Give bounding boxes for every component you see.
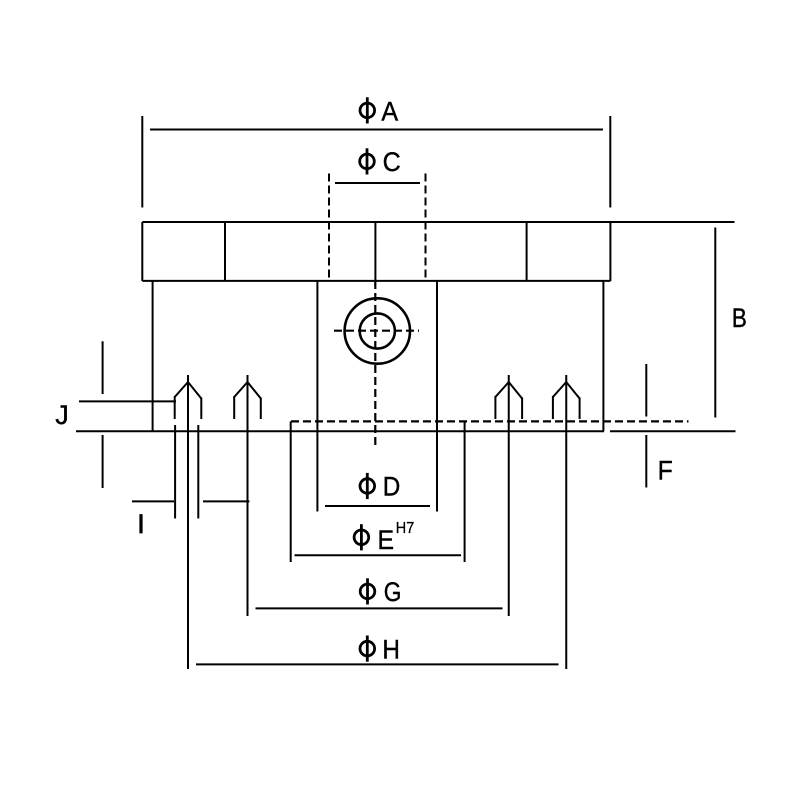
extension line phi-E left — [290, 421, 292, 562]
pin symbol 2 left barb — [233, 396, 235, 419]
center hole inner circle — [360, 313, 395, 348]
dimension J vertical lower segment — [102, 435, 104, 488]
pin symbol 4 right barb — [579, 398, 581, 420]
hidden line phi-C left — [328, 174, 330, 281]
pin symbol 2 right barb — [260, 398, 262, 420]
svg-text:G: G — [384, 577, 402, 607]
pin symbol 4 chevron — [553, 382, 580, 399]
center hole outer circle — [345, 298, 410, 363]
dimension line phi-A — [150, 129, 603, 131]
dimension J vertical upper segment — [102, 341, 104, 394]
hidden pin bottom line dashed — [291, 420, 689, 422]
pin symbol 1 left barb — [174, 396, 176, 419]
dimension F vertical lower segment — [645, 435, 647, 488]
pin symbol 4 left barb — [552, 396, 554, 419]
body bottom line (with J extension to left) — [76, 430, 604, 432]
flange segment line left — [224, 222, 226, 281]
extension line phi-D right — [436, 281, 438, 512]
svg-text:C: C — [383, 146, 401, 177]
flange right edge — [609, 222, 611, 281]
extension line phi-E right — [464, 421, 466, 562]
vertical centerline dashed — [374, 281, 376, 449]
dimension label phi-G — [360, 577, 401, 607]
dimension J top line — [79, 400, 176, 402]
pin symbol 3 left barb — [494, 396, 496, 419]
dimension line phi-H — [196, 663, 559, 665]
dimension line B — [714, 228, 716, 418]
extension line phi-D left — [316, 281, 318, 512]
hidden line phi-C right — [425, 174, 427, 281]
pin symbol 4 centerline (extension for phi-H) — [565, 375, 567, 669]
pin symbol 3 right barb — [521, 398, 523, 420]
pin symbol 3 centerline (extension for phi-G) — [508, 375, 510, 616]
body left edge — [152, 281, 154, 431]
hole crosshair horizontal centerline — [334, 330, 419, 332]
svg-text:I: I — [137, 509, 145, 539]
pin symbol 3 chevron — [495, 382, 522, 399]
svg-text:E: E — [378, 526, 395, 555]
flange bottom face line — [142, 280, 610, 282]
svg-text:B: B — [732, 303, 747, 333]
pin symbol 1 right barb — [200, 398, 202, 420]
dimension line phi-C — [335, 182, 420, 184]
extension line phi-A left — [141, 116, 143, 208]
svg-text:J: J — [55, 400, 69, 430]
svg-text:A: A — [381, 95, 398, 126]
dimension label phi-C — [360, 146, 401, 177]
pin symbol 1 chevron — [175, 382, 202, 399]
pin symbol 2 chevron — [234, 382, 261, 399]
dimension label phi-D — [360, 472, 400, 501]
pin 1 left barb extension (I dim) — [174, 425, 176, 519]
extension line phi-A right — [609, 116, 611, 208]
body right edge — [602, 281, 604, 431]
dimension line phi-D — [325, 505, 430, 507]
svg-text:D: D — [383, 472, 401, 501]
flange segment line right — [526, 222, 528, 281]
flange segment line center — [374, 222, 376, 281]
dimension label phi-A — [360, 95, 399, 126]
flange top face line (extends right as extension for B) — [142, 221, 734, 223]
pin symbol 2 centerline (extension for phi-G) — [247, 375, 249, 616]
svg-text:H7: H7 — [396, 519, 414, 537]
dimension label phi-E H7 — [354, 519, 414, 555]
svg-text:H: H — [382, 635, 400, 664]
dimension label phi-H — [360, 635, 400, 664]
dimension F vertical upper segment — [645, 364, 647, 417]
flange left edge — [141, 222, 143, 281]
dimension line phi-G — [256, 607, 503, 609]
pin symbol 1 centerline (extension for phi-H) — [187, 375, 189, 669]
bottom extension line right (for B and F) — [610, 430, 736, 432]
dimension I line left segment — [132, 500, 174, 502]
dimension line phi-E — [295, 554, 462, 556]
pin 1 right barb extension (I dim) — [197, 425, 199, 519]
svg-text:F: F — [658, 456, 673, 485]
dimension I line right segment — [203, 500, 249, 502]
